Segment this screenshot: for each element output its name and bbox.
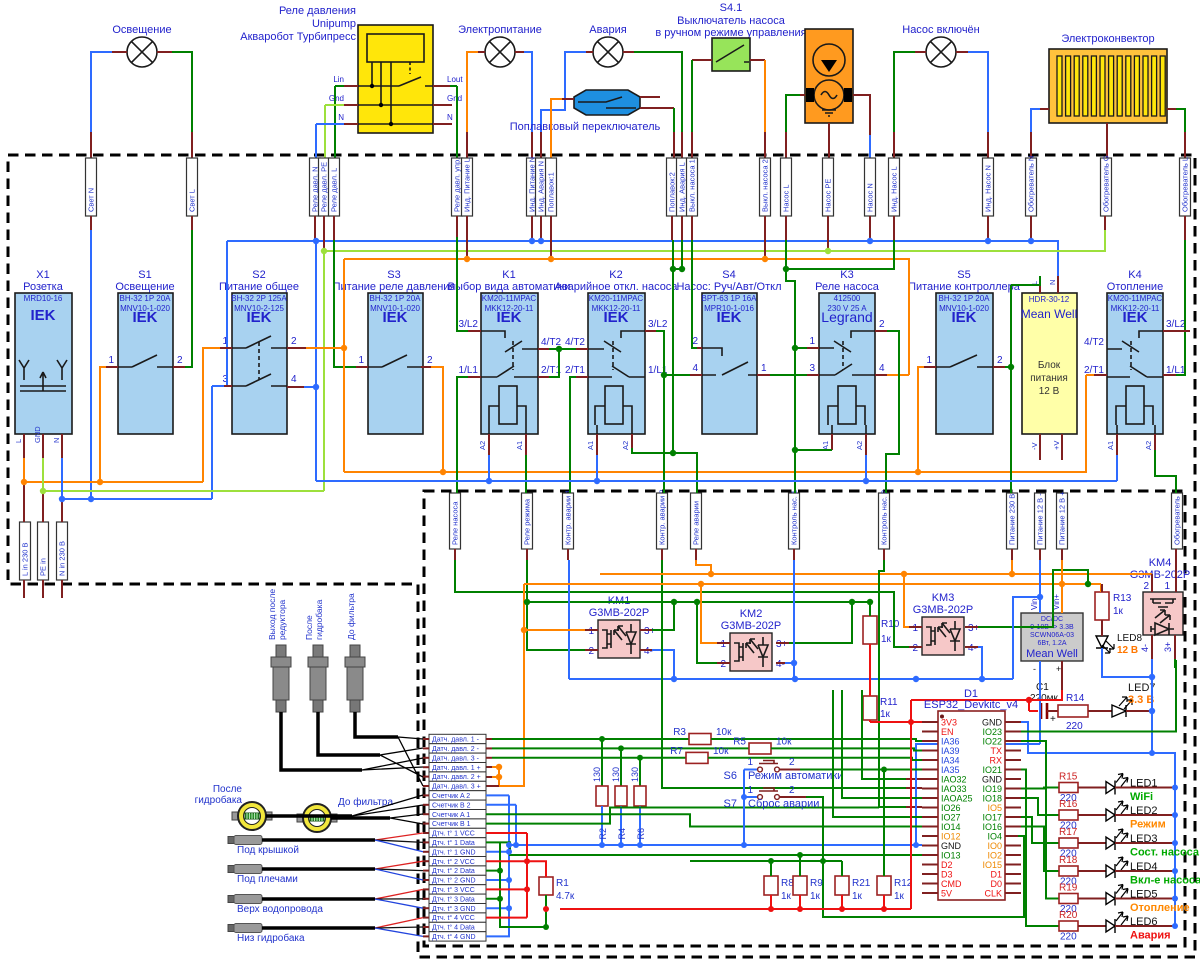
KM1 4- bbox=[640, 649, 652, 651]
svg-text:Mean Well: Mean Well bbox=[1026, 648, 1078, 660]
wire Инд.Авария N bbox=[586, 51, 593, 53]
wire Инд.Насос L bbox=[915, 51, 926, 53]
svg-text:2: 2 bbox=[427, 355, 433, 366]
svg-text:TX: TX bbox=[990, 746, 1002, 756]
svg-text:IO21: IO21 bbox=[982, 765, 1002, 775]
terminal Насос N bbox=[865, 158, 876, 216]
terminal Питание 12 В - bbox=[1035, 493, 1046, 549]
svg-text:Unipump: Unipump bbox=[312, 18, 356, 30]
svg-text:Верх водопровода: Верх водопровода bbox=[237, 904, 323, 915]
wire ВыклНасоса2 stub bbox=[764, 216, 766, 259]
heater wires bbox=[1040, 108, 1049, 110]
terminal Выкл. насоса 1 bbox=[687, 158, 698, 216]
terminal Контр. аварии 1 bbox=[563, 489, 574, 549]
svg-text:IA34: IA34 bbox=[941, 756, 960, 766]
wire Контроль нас.1 to gnd bus bbox=[793, 549, 795, 560]
svg-text:HDR-30-12: HDR-30-12 bbox=[1029, 295, 1070, 304]
svg-text:MRD10-16: MRD10-16 bbox=[24, 294, 63, 303]
svg-text:GND: GND bbox=[33, 426, 42, 443]
svg-text:BPT-63 1P 16A: BPT-63 1P 16A bbox=[702, 294, 758, 303]
terminal Инд. Авария L bbox=[677, 158, 688, 216]
svg-text:3/L2: 3/L2 bbox=[1166, 319, 1186, 330]
svg-text:1к: 1к bbox=[881, 634, 892, 645]
resistor R9 1к bbox=[793, 876, 823, 909]
resistor R6 130 bbox=[639, 758, 641, 786]
junction dots bbox=[59, 238, 1034, 502]
LED8 12 В bbox=[1096, 620, 1152, 677]
svg-text:BH-32 1P 20A: BH-32 1P 20A bbox=[939, 294, 991, 303]
resistor R8 1к bbox=[764, 876, 794, 909]
main blue coil bus bbox=[316, 455, 1117, 481]
svg-text:Вкл-е насоса: Вкл-е насоса bbox=[1130, 875, 1200, 887]
terminal Инд. Авария N bbox=[536, 158, 547, 216]
resistor R2 130 bbox=[601, 739, 603, 786]
svg-text:Режим автоматики: Режим автоматики bbox=[748, 770, 843, 782]
svg-text:KM20-11MPAC: KM20-11MPAC bbox=[1108, 294, 1163, 303]
svg-text:GND: GND bbox=[982, 718, 1003, 728]
svg-text:WiFi: WiFi bbox=[1130, 791, 1153, 803]
wire lamp light L bbox=[157, 51, 172, 53]
svg-text:Инд. Авария L: Инд. Авария L bbox=[678, 162, 687, 212]
resistor R15 220 bbox=[1059, 772, 1078, 805]
svg-text:Реле давления: Реле давления bbox=[279, 5, 356, 17]
svg-text:Отопление: Отопление bbox=[1130, 902, 1190, 914]
svg-text:1: 1 bbox=[761, 363, 767, 374]
svg-text:IO13: IO13 bbox=[941, 851, 961, 861]
svg-text:R14: R14 bbox=[1066, 693, 1085, 704]
wire НасосPE stub bbox=[827, 216, 829, 251]
svg-text:IEK: IEK bbox=[382, 309, 407, 326]
svg-text:S4: S4 bbox=[722, 269, 735, 281]
svg-text:R2: R2 bbox=[598, 828, 608, 840]
svg-text:PE in: PE in bbox=[39, 558, 48, 576]
terminal N in 230 В bbox=[57, 522, 68, 580]
svg-text:IO22: IO22 bbox=[982, 737, 1002, 747]
svg-text:S5: S5 bbox=[957, 269, 970, 281]
wire Питание 12В- to Vin- bbox=[1039, 549, 1041, 560]
svg-text:K1: K1 bbox=[502, 269, 515, 281]
svg-text:Свет N: Свет N bbox=[87, 188, 96, 212]
svg-text:Поплавковый переключатель: Поплавковый переключатель bbox=[510, 121, 661, 133]
svg-text:S1: S1 bbox=[138, 269, 151, 281]
svg-text:4/T2: 4/T2 bbox=[1084, 337, 1104, 348]
KM2 pin1 from 12V+ bbox=[701, 584, 717, 643]
power supply HDR-30-12 Mean Well bbox=[1021, 276, 1077, 460]
svg-text:Дтч. t° 4 GND: Дтч. t° 4 GND bbox=[432, 933, 476, 941]
svg-text:Счетчик A 1: Счетчик A 1 bbox=[432, 812, 470, 819]
svg-text:4.7к: 4.7к bbox=[556, 891, 575, 902]
wire СветL to S1 bbox=[191, 216, 193, 230]
svg-text:KM4: KM4 bbox=[1149, 557, 1172, 569]
resistor R4 130 bbox=[620, 748, 622, 786]
svg-text:IO17: IO17 bbox=[982, 813, 1002, 823]
svg-text:Legrand: Legrand bbox=[821, 309, 872, 325]
terminal Инд. Насос L bbox=[889, 158, 900, 216]
svg-text:GND: GND bbox=[982, 775, 1003, 785]
IO22 to R19 bbox=[1021, 741, 1059, 899]
svg-text:220мк: 220мк bbox=[1030, 693, 1059, 704]
svg-text:G3MB-202P: G3MB-202P bbox=[721, 620, 782, 632]
wires pressure relay right pins bbox=[433, 86, 452, 124]
svg-text:Контр. аварии 1: Контр. аварии 1 bbox=[564, 489, 573, 545]
svg-text:4: 4 bbox=[291, 374, 297, 385]
svg-text:IO23: IO23 bbox=[982, 727, 1002, 737]
svg-text:IO19: IO19 bbox=[982, 784, 1002, 794]
svg-text:4-: 4- bbox=[968, 643, 977, 654]
svg-text:Обогреватель N: Обогреватель N bbox=[1027, 156, 1036, 212]
pump bbox=[805, 29, 853, 123]
terminal Реле аварии bbox=[691, 493, 702, 549]
svg-text:3+: 3+ bbox=[968, 623, 980, 634]
temperature sensor Верх водопровода bbox=[228, 889, 423, 915]
svg-text:2: 2 bbox=[720, 659, 726, 670]
onewire data net bbox=[486, 842, 922, 927]
float switch bbox=[510, 90, 661, 133]
svg-text:ESP32_Devkitc_v4: ESP32_Devkitc_v4 bbox=[924, 699, 1018, 711]
flow meter До фильтра bbox=[297, 804, 337, 832]
temperature sensor Низ гидробака bbox=[228, 918, 423, 944]
breaker X1 Розетка bbox=[14, 269, 72, 458]
pressure sensor cables bbox=[281, 712, 398, 770]
svg-text:3+: 3+ bbox=[644, 626, 656, 637]
gnd bus 12V- bbox=[569, 678, 1013, 680]
KM3 4- bbox=[965, 646, 978, 648]
N input bus bbox=[62, 458, 212, 499]
svg-text:IO2: IO2 bbox=[987, 851, 1002, 861]
svg-text:Насос L: Насос L bbox=[782, 184, 791, 212]
svg-text:IA35: IA35 bbox=[941, 765, 960, 775]
svg-text:Инд. Питание L: Инд. Питание L bbox=[463, 158, 472, 212]
terminal Насос L bbox=[781, 158, 792, 216]
svg-text:R12: R12 bbox=[894, 878, 913, 889]
svg-text:L in 230 В: L in 230 В bbox=[21, 543, 30, 577]
lamp Насос включён bbox=[902, 24, 980, 67]
KM3 3+ bbox=[965, 626, 978, 628]
temperature sensor Под плечами bbox=[228, 861, 423, 885]
svg-text:Датч. давл. 1 +: Датч. давл. 1 + bbox=[432, 765, 481, 772]
wire Поплавок2 down bbox=[671, 216, 673, 240]
svg-text:После: После bbox=[213, 784, 243, 795]
svg-text:3: 3 bbox=[809, 363, 815, 374]
terminal Инд. Питание L bbox=[462, 158, 473, 216]
sensor terminal strip bbox=[423, 734, 486, 941]
wire ИндПитаниеL stub bbox=[466, 216, 468, 259]
svg-text:4: 4 bbox=[692, 363, 698, 374]
svg-text:Дтч. t° 2 GND: Дтч. t° 2 GND bbox=[432, 877, 476, 885]
K2 wires bbox=[576, 376, 588, 378]
svg-text:Выключатель насоса: Выключатель насоса bbox=[677, 15, 786, 27]
IO21 to R20 bbox=[1021, 770, 1059, 927]
LED4 Вкл-е насоса bbox=[1078, 857, 1200, 887]
terminal Контроль нас. 2 bbox=[879, 490, 890, 549]
R10-R11 red link bbox=[869, 644, 871, 696]
K3 pin2 to Контроль нас 2 bbox=[875, 330, 887, 332]
svg-text:2: 2 bbox=[588, 646, 594, 657]
svg-text:Контроль нас. 2: Контроль нас. 2 bbox=[880, 490, 889, 545]
L bus bbox=[344, 259, 909, 375]
svg-text:Выбор вида автоматики: Выбор вида автоматики bbox=[448, 281, 571, 293]
svg-text:Датч. давл. 2 -: Датч. давл. 2 - bbox=[432, 746, 480, 753]
svg-text:N in 230 В: N in 230 В bbox=[58, 541, 67, 576]
svg-text:Аварийное откл. насоса: Аварийное откл. насоса bbox=[555, 281, 679, 293]
svg-text:+: + bbox=[1050, 714, 1056, 725]
svg-text:N: N bbox=[447, 113, 453, 122]
svg-text:IO5: IO5 bbox=[987, 803, 1002, 813]
svg-text:KM20-11MPAC: KM20-11MPAC bbox=[589, 294, 644, 303]
orange riser S2out bbox=[343, 259, 345, 472]
IAO32 riser bbox=[862, 690, 906, 779]
IO19 to R15 bbox=[1021, 788, 1059, 789]
wire ИндНасосN stub bbox=[987, 216, 989, 241]
svg-text:CMD: CMD bbox=[941, 879, 962, 889]
svg-text:1: 1 bbox=[747, 785, 753, 796]
svg-text:3V3: 3V3 bbox=[941, 718, 957, 728]
svg-text:A2: A2 bbox=[478, 441, 487, 450]
svg-text:Дтч. t° 1 Data: Дтч. t° 1 Data bbox=[432, 839, 475, 847]
svg-text:R16: R16 bbox=[1059, 799, 1078, 810]
relay K3 Реле насоса bbox=[809, 269, 885, 450]
terminal Реле давл. PE bbox=[319, 158, 330, 216]
IO17 to R17 bbox=[1021, 817, 1059, 843]
svg-text:A2: A2 bbox=[1144, 441, 1153, 450]
svg-text:Реле насоса: Реле насоса bbox=[451, 501, 460, 545]
bottom junction dots bbox=[497, 736, 887, 930]
KM2 4- bbox=[776, 662, 785, 664]
wire ИндАварияL down bbox=[681, 216, 683, 240]
svg-text:Питание 12 В +: Питание 12 В + bbox=[1058, 491, 1067, 545]
svg-text:S3: S3 bbox=[387, 269, 400, 281]
svg-text:Отопление: Отопление bbox=[1107, 281, 1163, 293]
PE bus bbox=[324, 230, 1105, 251]
wire Обогреватель to KM4-1 bbox=[1175, 549, 1177, 592]
breaker S3 Питание реле давления bbox=[333, 269, 456, 434]
svg-text:1к: 1к bbox=[1113, 606, 1124, 617]
solid state relay KM3 G3MB-202P bbox=[913, 592, 974, 655]
svg-text:2: 2 bbox=[1143, 581, 1149, 592]
pressure relay Unipump bbox=[240, 5, 463, 133]
svg-text:K2: K2 bbox=[609, 269, 622, 281]
svg-text:A2: A2 bbox=[855, 441, 864, 450]
svg-text:После: После bbox=[304, 615, 314, 640]
svg-text:R3: R3 bbox=[673, 727, 686, 738]
breaker S1 Освещение bbox=[108, 269, 183, 434]
KM4 4- to LED bus bbox=[1151, 635, 1153, 659]
lamp Авария bbox=[589, 24, 626, 67]
svg-text:3/L2: 3/L2 bbox=[648, 319, 668, 330]
svg-text:Дтч. t° 2 VCC: Дтч. t° 2 VCC bbox=[432, 858, 475, 866]
svg-text:A1: A1 bbox=[1106, 441, 1115, 450]
svg-text:BH-32 1P 20A: BH-32 1P 20A bbox=[370, 294, 422, 303]
230V L bus bbox=[600, 574, 1152, 592]
svg-text:L: L bbox=[14, 439, 23, 443]
IO18 to R16 bbox=[1021, 798, 1059, 815]
svg-text:Датч. давл. 3 +: Датч. давл. 3 + bbox=[432, 784, 481, 791]
svg-text:Lout: Lout bbox=[447, 75, 463, 84]
svg-text:1: 1 bbox=[588, 626, 594, 637]
svg-text:IO0: IO0 bbox=[987, 841, 1002, 851]
pushbutton S7 Сброс аварии bbox=[724, 785, 1024, 917]
K1 contact links bbox=[538, 348, 549, 350]
svg-text:130: 130 bbox=[592, 767, 602, 782]
svg-text:K3: K3 bbox=[840, 269, 853, 281]
pressure sensor После bbox=[304, 599, 328, 712]
svg-text:N: N bbox=[1048, 280, 1057, 285]
right gnd to minus bbox=[1021, 722, 1152, 753]
resistor R10 1к bbox=[863, 616, 900, 645]
svg-text:220: 220 bbox=[1060, 932, 1077, 943]
terminal Поплавок:2 bbox=[667, 158, 678, 216]
svg-text:1к: 1к bbox=[852, 891, 863, 902]
resistor R7 10к bbox=[486, 757, 492, 759]
wire Инд.Питание N bbox=[515, 51, 524, 53]
svg-text:Счетчик A 2: Счетчик A 2 bbox=[432, 793, 470, 800]
breaker S5 Питание контроллера bbox=[908, 269, 1021, 434]
svg-text:2: 2 bbox=[997, 355, 1003, 366]
DC out plus 3.3V bbox=[1061, 661, 1063, 690]
S4 pin1 to K3 pin3 bbox=[757, 374, 770, 376]
svg-text:-: - bbox=[1033, 664, 1036, 674]
svg-text:BH-32 1P 20A: BH-32 1P 20A bbox=[120, 294, 172, 303]
svg-text:KM3: KM3 bbox=[932, 592, 955, 604]
svg-text:R18: R18 bbox=[1059, 855, 1078, 866]
svg-text:G3MB-202P: G3MB-202P bbox=[589, 607, 650, 619]
svg-text:Поплавок:2: Поплавок:2 bbox=[668, 172, 677, 212]
svg-text:Инд. Авария N: Инд. Авария N bbox=[537, 161, 546, 212]
pump wires bbox=[800, 94, 805, 96]
svg-text:Lin: Lin bbox=[333, 75, 344, 84]
resistor R14 220 bbox=[1058, 693, 1088, 732]
svg-text:1к: 1к bbox=[781, 891, 792, 902]
svg-text:A2: A2 bbox=[621, 441, 630, 450]
svg-text:2: 2 bbox=[789, 785, 795, 796]
svg-text:Датч. давл. 1 -: Датч. давл. 1 - bbox=[432, 737, 480, 744]
terminal Свет L bbox=[187, 158, 198, 216]
wire РелеДавлPE vertical bbox=[323, 216, 325, 251]
svg-text:10к: 10к bbox=[713, 746, 729, 757]
svg-text:2: 2 bbox=[291, 336, 297, 347]
IO16 to R18 bbox=[1021, 827, 1059, 872]
wire ИндАварияN stub bbox=[540, 216, 542, 241]
resistor R5 10к bbox=[486, 747, 492, 749]
svg-text:4: 4 bbox=[879, 363, 885, 374]
terminal Реле давл. N bbox=[310, 158, 321, 216]
svg-text:гидробака: гидробака bbox=[195, 794, 243, 806]
float to alarm junction bbox=[672, 452, 674, 454]
svg-text:1к: 1к bbox=[880, 709, 891, 720]
svg-text:BH-32 2P 125A: BH-32 2P 125A bbox=[231, 294, 287, 303]
wire РелеДавлУпр to K1 bbox=[456, 216, 458, 237]
svg-text:+V: +V bbox=[1052, 441, 1061, 450]
float wires bbox=[562, 98, 574, 100]
svg-text:Дтч. t° 3 Data: Дтч. t° 3 Data bbox=[432, 895, 475, 903]
svg-text:Контроль нас. 1: Контроль нас. 1 bbox=[790, 490, 799, 545]
12V+ bus bbox=[524, 584, 1101, 592]
svg-text:питания: питания bbox=[1030, 373, 1068, 384]
wire Поплавок1 stub bbox=[550, 216, 552, 259]
svg-text:S2: S2 bbox=[252, 269, 265, 281]
coil wires K2 bbox=[596, 434, 598, 455]
lamp Освещение bbox=[112, 24, 171, 67]
svg-text:1: 1 bbox=[1164, 581, 1170, 592]
green 12V bus to R10 bbox=[527, 602, 870, 616]
svg-text:SCWN06A-03: SCWN06A-03 bbox=[1030, 632, 1074, 639]
svg-text:LED8: LED8 bbox=[1117, 633, 1142, 644]
resistor R17 220 bbox=[1059, 827, 1078, 860]
svg-text:3/L2: 3/L2 bbox=[459, 319, 479, 330]
svg-text:гидробака: гидробака bbox=[314, 599, 324, 640]
svg-text:D0: D0 bbox=[990, 879, 1002, 889]
svg-text:Реле аварии: Реле аварии bbox=[692, 501, 701, 545]
svg-text:IEK: IEK bbox=[1122, 309, 1147, 326]
KM3 pin1 from 230V bbox=[904, 574, 909, 627]
coil wires K3 bbox=[831, 434, 833, 450]
S4.1 wires bbox=[692, 59, 712, 61]
svg-text:10к: 10к bbox=[776, 737, 792, 748]
svg-text:Освещение: Освещение bbox=[112, 24, 171, 36]
svg-text:Реле режима: Реле режима bbox=[523, 498, 532, 545]
resistor R18 220 bbox=[1059, 855, 1078, 888]
svg-text:Питание 230 В: Питание 230 В bbox=[1008, 494, 1017, 545]
svg-text:Счетчик B 1: Счетчик B 1 bbox=[432, 821, 471, 828]
svg-text:Дтч. t° 4 Data: Дтч. t° 4 Data bbox=[432, 924, 475, 932]
svg-text:412500: 412500 bbox=[834, 294, 861, 303]
svg-text:Датч. давл. 2 +: Датч. давл. 2 + bbox=[432, 774, 481, 781]
svg-text:Питание контроллера: Питание контроллера bbox=[908, 281, 1021, 293]
gnd bus bbox=[509, 844, 922, 846]
L input bus bbox=[24, 458, 203, 482]
svg-text:IEK: IEK bbox=[496, 309, 521, 326]
3.3V pullup bus bbox=[560, 722, 911, 909]
resistor R3 10к bbox=[486, 738, 492, 740]
PE input bus bbox=[43, 458, 324, 491]
resistor R21 1к bbox=[835, 876, 871, 909]
KM2 3+ to IAO32 bbox=[776, 642, 789, 644]
wire S3 pin2 bbox=[421, 366, 431, 368]
terminal Контр. аварии 2 bbox=[657, 489, 668, 549]
svg-text:5V: 5V bbox=[941, 889, 952, 899]
wire S1 pin1 bbox=[106, 366, 118, 368]
wires pressure relay left pins bbox=[344, 86, 358, 124]
terminal Инд. Насос N bbox=[983, 158, 994, 216]
resistor R1 4.7к bbox=[527, 861, 575, 927]
wire Реле режима to KM1-2 bbox=[526, 549, 528, 560]
svg-text:R7: R7 bbox=[670, 746, 683, 757]
svg-text:Датч. давл. 3 -: Датч. давл. 3 - bbox=[432, 755, 480, 762]
svg-text:A1: A1 bbox=[515, 441, 524, 450]
contactor K2 Аварийное откл. насоса bbox=[555, 269, 679, 450]
S5 pin2 to PSU and controller bbox=[993, 366, 1005, 368]
resistor R20 220 bbox=[1059, 910, 1078, 943]
wire Реле насоса to KM3-2 bbox=[454, 549, 456, 560]
svg-text:EN: EN bbox=[941, 727, 954, 737]
svg-text:Авария: Авария bbox=[589, 24, 626, 36]
capacitor C1 220мк bbox=[1029, 682, 1059, 725]
svg-text:R6: R6 bbox=[636, 828, 646, 840]
svg-text:2: 2 bbox=[177, 355, 183, 366]
terminal Насос PE bbox=[823, 158, 834, 216]
svg-text:R19: R19 bbox=[1059, 883, 1078, 894]
terminal Реле давл. упр. bbox=[452, 158, 463, 216]
resistor R12 1к bbox=[877, 876, 913, 909]
svg-text:KM20-11MPAC: KM20-11MPAC bbox=[482, 294, 537, 303]
wire ИндПитаниеN stub bbox=[531, 216, 533, 241]
svg-text:12 В: 12 В bbox=[1039, 386, 1060, 397]
svg-text:1: 1 bbox=[747, 757, 753, 768]
svg-text:N: N bbox=[52, 438, 61, 443]
svg-text:Под плечами: Под плечами bbox=[237, 874, 298, 885]
wire НасосN stub bbox=[869, 216, 871, 241]
svg-text:1: 1 bbox=[926, 355, 932, 366]
